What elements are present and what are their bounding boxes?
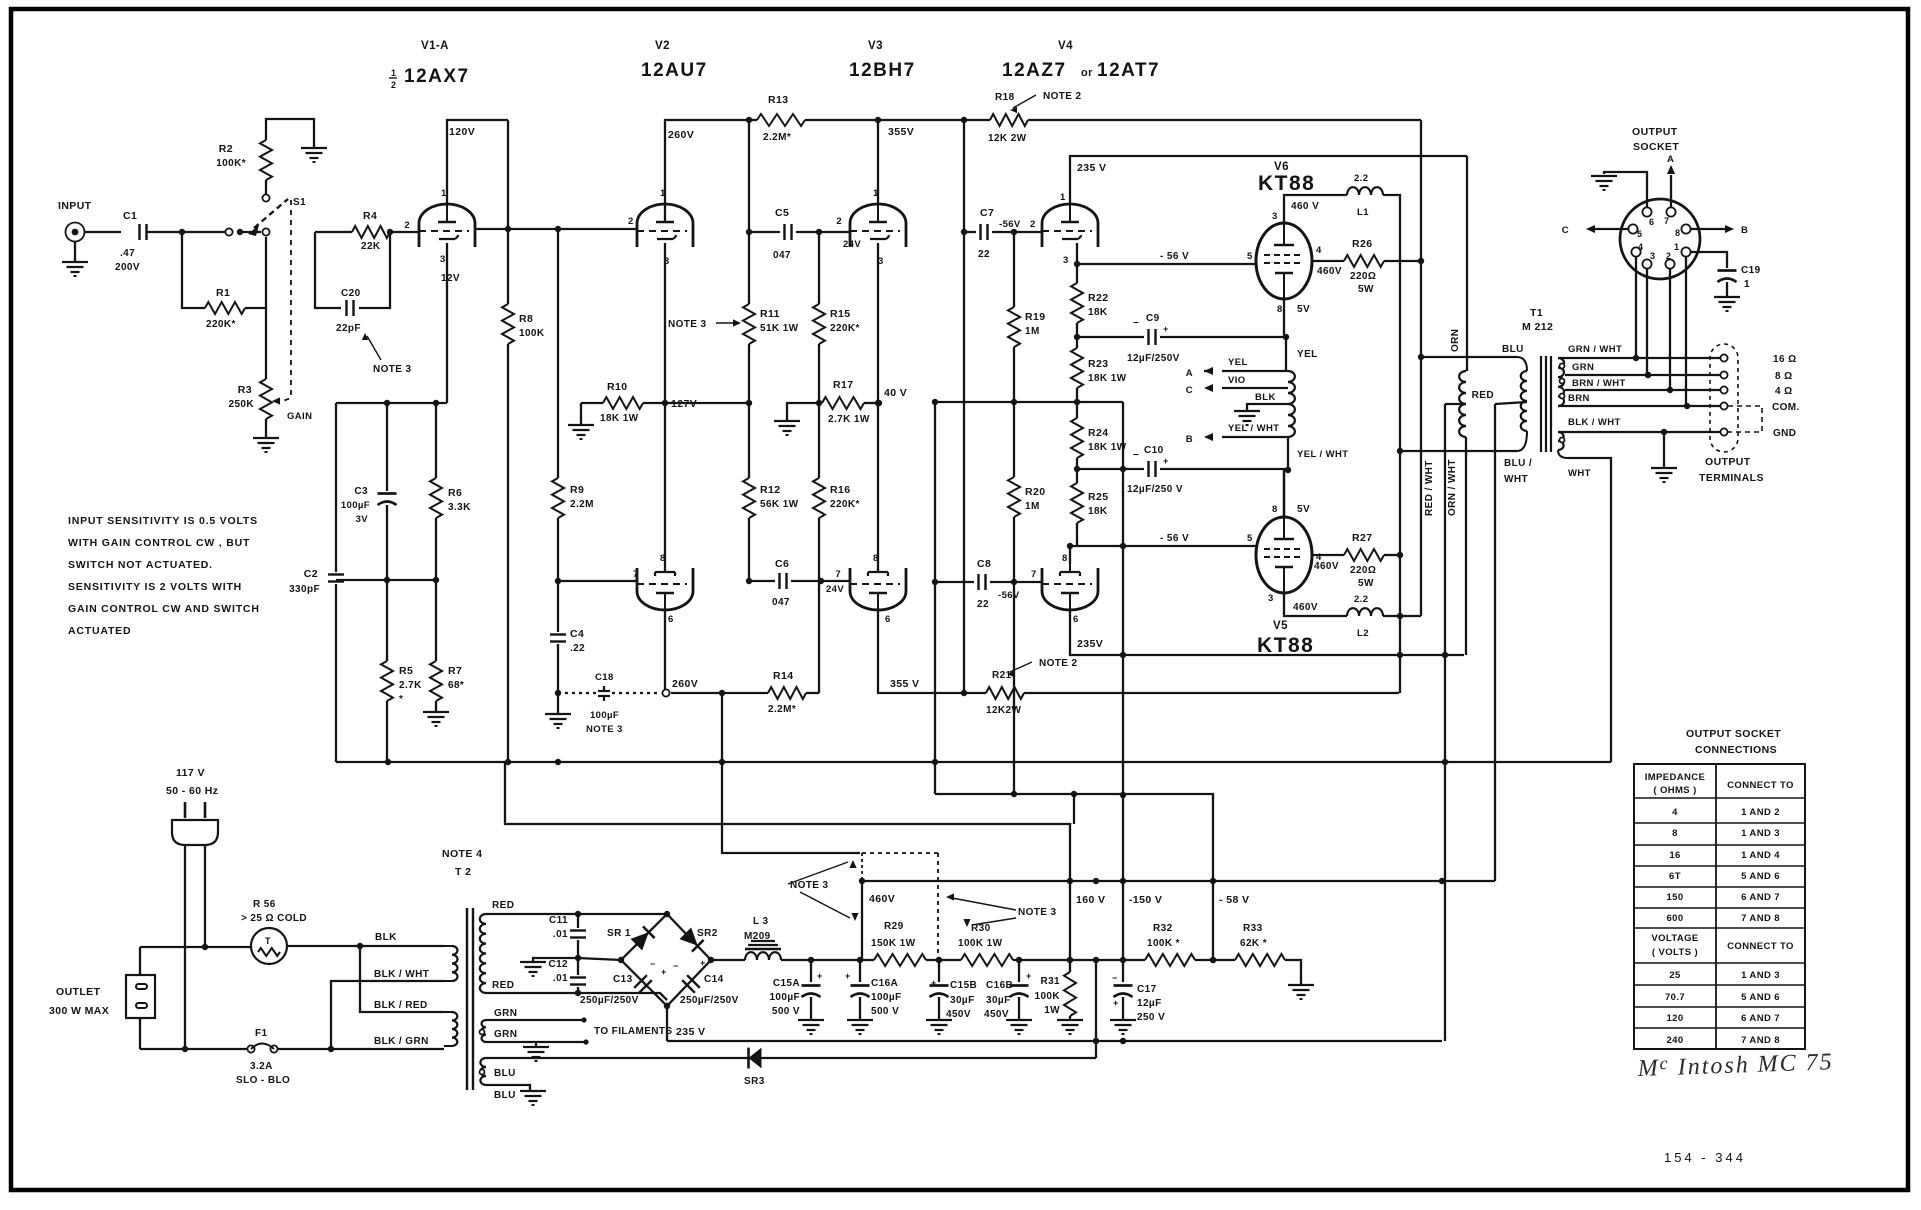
svg-text:V4: V4 xyxy=(1058,40,1073,52)
svg-text:NOTE 3: NOTE 3 xyxy=(1018,907,1057,918)
note 3 arrows ps xyxy=(788,860,859,921)
svg-text:12µF: 12µF xyxy=(1137,998,1162,1009)
svg-text:12AZ7: 12AZ7 xyxy=(1002,60,1067,81)
svg-text:C17: C17 xyxy=(1137,984,1157,995)
svg-text:KT88: KT88 xyxy=(1257,634,1314,657)
T2 filament GRN xyxy=(480,1008,518,1042)
svg-text:C1: C1 xyxy=(123,210,137,222)
diode SR3 xyxy=(744,1048,765,1087)
svg-text:R18: R18 xyxy=(995,92,1015,103)
svg-text:8: 8 xyxy=(1277,304,1283,315)
svg-text:SENSITIVITY IS 2 VOLTS WITH: SENSITIVITY IS 2 VOLTS WITH xyxy=(68,581,242,593)
wire bridge left to C12 xyxy=(578,958,621,960)
wire V3 pin6 to 355V xyxy=(878,608,986,696)
tube V3 lower internals xyxy=(850,564,900,608)
socket pin 7 xyxy=(1664,207,1676,226)
svg-text:68*: 68* xyxy=(448,680,464,691)
svg-text:R23: R23 xyxy=(1088,358,1108,370)
svg-text:> 25 Ω COLD: > 25 Ω COLD xyxy=(241,913,307,924)
svg-text:- 56 V: - 56 V xyxy=(1160,251,1189,262)
svg-text:TERMINALS: TERMINALS xyxy=(1699,472,1764,484)
wire 460V line xyxy=(859,878,895,960)
wire mains top xyxy=(140,946,251,948)
svg-text:R21: R21 xyxy=(992,670,1012,681)
socket pin 3 xyxy=(1642,251,1655,269)
svg-text:1M: 1M xyxy=(1025,501,1040,512)
svg-text:M209: M209 xyxy=(744,931,771,942)
socket pin 1 xyxy=(1674,242,1691,257)
svg-text:BLK: BLK xyxy=(375,932,397,943)
label INPUT xyxy=(58,200,92,212)
svg-text:OUTLET: OUTLET xyxy=(56,986,101,998)
svg-text:1W: 1W xyxy=(1044,1005,1060,1016)
svg-text:4 Ω: 4 Ω xyxy=(1775,386,1793,397)
wire R13 to V3 plate line xyxy=(805,117,990,123)
tube V3 upper envelope xyxy=(850,204,906,247)
svg-text:220Ω: 220Ω xyxy=(1350,271,1376,282)
svg-text:A: A xyxy=(1667,154,1674,165)
svg-text:25: 25 xyxy=(1669,970,1681,981)
socket pin 8 xyxy=(1675,224,1691,238)
wire R20 line to bias xyxy=(1011,582,1017,797)
svg-text:VIO: VIO xyxy=(1228,375,1246,386)
svg-text:L1: L1 xyxy=(1357,207,1369,218)
resistor R23 xyxy=(1071,337,1127,402)
pin labels V2 lower xyxy=(633,553,674,625)
svg-text:12BH7: 12BH7 xyxy=(849,60,916,81)
svg-text:( VOLTS ): ( VOLTS ) xyxy=(1652,947,1698,958)
AC plug xyxy=(172,820,218,845)
svg-text:R32: R32 xyxy=(1153,923,1173,934)
svg-text:BLK / RED: BLK / RED xyxy=(374,1000,428,1011)
svg-text:R6: R6 xyxy=(448,487,462,499)
resistor R27 xyxy=(1344,532,1384,589)
svg-text:2: 2 xyxy=(391,80,396,90)
resistor R24 xyxy=(1071,402,1127,472)
svg-text:460 V: 460 V xyxy=(1291,201,1319,212)
wire V4 plate to 235V xyxy=(1070,156,1467,204)
socket pin 2 xyxy=(1665,251,1674,269)
svg-text:R9: R9 xyxy=(570,484,584,496)
svg-text:50 - 60 Hz: 50 - 60 Hz xyxy=(166,785,218,797)
table impedance rows xyxy=(1666,807,1780,924)
resistor R1 xyxy=(182,232,266,330)
svg-text:460V: 460V xyxy=(1293,602,1318,613)
wire bus y881 xyxy=(862,878,1495,884)
wire 127V to R12 line xyxy=(665,402,749,404)
svg-text:450V: 450V xyxy=(984,1009,1009,1020)
dashed note3 box xyxy=(722,762,942,963)
pin 3 V1 xyxy=(440,254,460,284)
svg-text:+: + xyxy=(1113,998,1119,1008)
plug prongs xyxy=(185,802,205,818)
svg-text:2.7K 1W: 2.7K 1W xyxy=(828,414,870,425)
label 154-344 xyxy=(1664,1150,1746,1165)
svg-text:220Ω: 220Ω xyxy=(1350,565,1376,576)
svg-text:5: 5 xyxy=(1247,533,1253,544)
resistor R21 xyxy=(986,670,1399,716)
svg-text:−: − xyxy=(673,961,679,971)
capacitor C8 xyxy=(935,558,1041,610)
svg-text:V3: V3 xyxy=(868,40,883,52)
svg-text:100K*: 100K* xyxy=(216,158,246,169)
T1 lower secondary xyxy=(1558,432,1565,450)
svg-text:- 56 V: - 56 V xyxy=(1160,533,1189,544)
svg-text:V5: V5 xyxy=(1273,620,1288,632)
svg-text:6: 6 xyxy=(1073,614,1079,625)
svg-text:2.2M*: 2.2M* xyxy=(763,132,791,143)
tube V2 lower internals xyxy=(637,564,687,608)
label V3 xyxy=(849,40,916,81)
svg-text:250K: 250K xyxy=(228,399,254,410)
svg-text:7 AND 8: 7 AND 8 xyxy=(1741,913,1780,924)
svg-text:500 V: 500 V xyxy=(772,1006,800,1017)
wire x1400 node xyxy=(1397,448,1403,693)
svg-text:5W: 5W xyxy=(1358,284,1374,295)
svg-text:*: * xyxy=(399,694,403,705)
tap C VIO xyxy=(1186,375,1288,396)
svg-text:NOTE 3: NOTE 3 xyxy=(373,364,412,375)
wire pin3 to 8ohm xyxy=(1645,268,1651,378)
svg-text:WHT: WHT xyxy=(1504,474,1528,485)
wire V5 cathode top xyxy=(1284,467,1291,517)
wire R14 to R16 bottom xyxy=(818,518,820,693)
pin 1 V1 xyxy=(441,188,447,199)
svg-text:R22: R22 xyxy=(1088,292,1108,304)
tap B YEL/WHT xyxy=(1186,423,1288,445)
wire WHT lead xyxy=(1558,450,1611,762)
svg-text:117 V: 117 V xyxy=(176,767,205,779)
svg-text:YEL: YEL xyxy=(1228,357,1248,368)
svg-text:500 V: 500 V xyxy=(871,1006,899,1017)
capacitor C4 xyxy=(550,628,585,693)
svg-text:ORN: ORN xyxy=(1450,329,1461,352)
svg-text:5V: 5V xyxy=(1297,504,1310,515)
svg-text:220K*: 220K* xyxy=(830,323,860,334)
capacitor C12 xyxy=(548,955,586,993)
svg-text:3.2A: 3.2A xyxy=(250,1061,273,1072)
svg-text:R33: R33 xyxy=(1243,923,1263,934)
resistor R5 xyxy=(381,580,422,762)
terminal 4 xyxy=(1720,386,1792,397)
svg-text:VOLTAGE: VOLTAGE xyxy=(1651,933,1698,944)
svg-text:160 V: 160 V xyxy=(1076,894,1105,906)
wire bus y1041 xyxy=(667,1038,1442,1044)
resistor R22 xyxy=(1071,264,1108,337)
capacitor C1 xyxy=(115,210,147,273)
svg-text:CONNECT TO: CONNECT TO xyxy=(1727,780,1794,791)
tube V1 internals xyxy=(419,204,469,239)
svg-text:.22: .22 xyxy=(570,643,585,654)
svg-text:GND: GND xyxy=(1773,428,1796,439)
choke L2 xyxy=(1347,594,1383,639)
svg-text:or: or xyxy=(1081,67,1093,79)
T1 secondary winding xyxy=(1558,358,1565,406)
svg-text:B: B xyxy=(1186,434,1193,445)
svg-text:SR3: SR3 xyxy=(744,1076,765,1087)
svg-text:BLK / WHT: BLK / WHT xyxy=(1568,417,1621,428)
resistor R19 xyxy=(1008,232,1045,347)
wire V6 cathode xyxy=(1283,299,1289,340)
svg-text:ACTUATED: ACTUATED xyxy=(68,625,131,637)
svg-text:18K: 18K xyxy=(1088,506,1108,517)
svg-text:R3: R3 xyxy=(238,384,252,396)
svg-text:240: 240 xyxy=(1666,1035,1683,1046)
ground output common xyxy=(1651,432,1677,482)
feedback winding xyxy=(1288,371,1295,437)
svg-text:120V: 120V xyxy=(449,126,475,138)
wire cathode bus y403 xyxy=(336,400,447,406)
svg-text:600: 600 xyxy=(1666,913,1683,924)
filament wires xyxy=(486,1017,673,1044)
svg-text:R7: R7 xyxy=(448,665,462,677)
svg-text:−: − xyxy=(1112,973,1118,983)
table OUTPUT SOCKET CONNECTIONS grid xyxy=(1634,764,1805,1049)
svg-text:1 AND 2: 1 AND 2 xyxy=(1741,807,1780,818)
wire F1 to BLK/GRN xyxy=(331,1048,444,1050)
T2 primary lower xyxy=(444,1012,457,1046)
svg-text:ORN / WHT: ORN / WHT xyxy=(1447,459,1458,516)
svg-text:2: 2 xyxy=(1666,251,1671,261)
svg-text:- 58 V: - 58 V xyxy=(1219,894,1249,906)
svg-text:GAIN CONTROL CW AND SWITCH: GAIN CONTROL CW AND SWITCH xyxy=(68,603,260,615)
wire V1-V2 coupling x558 xyxy=(557,229,559,478)
svg-text:4: 4 xyxy=(1638,242,1643,252)
resistor R18 xyxy=(988,92,1028,144)
svg-text:100K: 100K xyxy=(1034,991,1060,1002)
outlet box xyxy=(126,975,155,1018)
note 3 R11 xyxy=(668,319,741,330)
wire bridge right to L3 xyxy=(711,959,745,961)
svg-text:7: 7 xyxy=(1664,216,1669,226)
resistor R29 xyxy=(871,921,926,966)
svg-text:22K: 22K xyxy=(361,241,381,252)
svg-text:-150 V: -150 V xyxy=(1129,894,1162,906)
tap BRN com xyxy=(1558,393,1721,409)
socket pin 4 xyxy=(1631,242,1643,257)
svg-text:3: 3 xyxy=(1650,251,1655,261)
svg-text:40 V: 40 V xyxy=(884,387,907,399)
svg-text:18K 1W: 18K 1W xyxy=(1088,373,1127,384)
svg-text:GRN: GRN xyxy=(494,1008,517,1019)
svg-text:R26: R26 xyxy=(1352,238,1372,250)
wire V2 plate to 260V xyxy=(665,117,752,221)
wire pin1 to com xyxy=(1685,256,1687,406)
svg-text:R14: R14 xyxy=(773,670,793,682)
wire C5 line xyxy=(749,231,780,233)
svg-text:C20: C20 xyxy=(341,288,361,299)
tube V6 KT88 xyxy=(1256,223,1312,299)
T2 core xyxy=(467,908,473,1090)
wire bus y694 xyxy=(878,692,880,694)
svg-text:2.2: 2.2 xyxy=(1354,173,1368,184)
svg-text:C19: C19 xyxy=(1741,265,1761,276)
svg-text:250 V: 250 V xyxy=(1137,1012,1165,1023)
pot R3 GAIN xyxy=(228,308,312,422)
pin labels V5 xyxy=(1268,504,1322,604)
capacitor C7 xyxy=(964,207,1041,260)
svg-text:NOTE 4: NOTE 4 xyxy=(442,848,482,860)
svg-text:RED / WHT: RED / WHT xyxy=(1424,460,1435,516)
svg-text:INPUT SENSITIVITY IS 0.5 VO: INPUT SENSITIVITY IS 0.5 VOLTS xyxy=(68,515,258,527)
svg-text:300 W MAX: 300 W MAX xyxy=(49,1005,109,1017)
resistor R4 xyxy=(341,210,390,252)
capacitor C15B xyxy=(926,960,952,1034)
svg-text:C16A: C16A xyxy=(871,978,898,989)
svg-text:NOTE 3: NOTE 3 xyxy=(668,319,707,330)
svg-text:KT88: KT88 xyxy=(1258,172,1315,195)
svg-text:R2: R2 xyxy=(219,143,233,155)
resistor R13 xyxy=(757,94,805,143)
svg-text:150K 1W: 150K 1W xyxy=(871,938,916,949)
wire V2 pin6 to 260V node xyxy=(662,608,698,697)
svg-text:INPUT: INPUT xyxy=(58,200,92,212)
thermistor R56 xyxy=(241,899,307,964)
svg-text:C7: C7 xyxy=(980,207,994,219)
svg-text:R15: R15 xyxy=(830,308,850,320)
plug wires xyxy=(182,845,208,1052)
tap BLK/WHT gnd xyxy=(1558,417,1721,435)
svg-text:2: 2 xyxy=(628,216,634,227)
diode SR2 xyxy=(679,927,717,951)
wire V1 plate to 120V xyxy=(447,120,508,204)
wire pin4 to 16ohm xyxy=(1635,256,1637,358)
pin labels V3 lower xyxy=(873,553,891,625)
svg-text:-56V: -56V xyxy=(999,219,1021,230)
tap A YEL xyxy=(1186,357,1288,379)
svg-text:−: − xyxy=(1133,450,1139,461)
ground C4 line xyxy=(545,690,571,728)
svg-text:16 Ω: 16 Ω xyxy=(1773,354,1797,365)
T1 primary right winding xyxy=(1521,371,1527,431)
svg-text:7: 7 xyxy=(1031,569,1037,580)
wire y824 riser xyxy=(1070,794,1074,824)
wire RED/WHT drop xyxy=(1424,404,1495,881)
svg-text:22: 22 xyxy=(977,599,989,610)
svg-text:100µF: 100µF xyxy=(769,992,800,1003)
svg-text:150: 150 xyxy=(1666,892,1683,903)
svg-text:450V: 450V xyxy=(946,1009,971,1020)
wire HV top to bridge xyxy=(486,911,667,917)
svg-text:R12: R12 xyxy=(760,484,780,496)
svg-text:1: 1 xyxy=(1674,242,1679,252)
svg-text:C2: C2 xyxy=(304,568,318,580)
svg-text:260V: 260V xyxy=(668,129,694,141)
label -56V lower xyxy=(0,0,1,1)
svg-text:24V: 24V xyxy=(826,584,844,595)
note 2 R18 xyxy=(1010,91,1082,113)
svg-text:C18: C18 xyxy=(595,672,614,683)
ground input jack xyxy=(62,241,88,276)
svg-text:R31: R31 xyxy=(1040,976,1060,987)
svg-text:NOTE 2: NOTE 2 xyxy=(1043,91,1082,102)
svg-text:8: 8 xyxy=(660,553,666,564)
svg-text:8: 8 xyxy=(1675,228,1680,238)
label L3 M209 xyxy=(744,916,771,942)
svg-text:YEL: YEL xyxy=(1297,349,1318,360)
wire V6 plate to L1 xyxy=(1284,195,1347,223)
svg-text:SOCKET: SOCKET xyxy=(1633,141,1679,153)
wire L2 to x1421 xyxy=(1383,613,1421,619)
svg-text:7: 7 xyxy=(633,569,639,580)
wire x749 junction down xyxy=(746,120,752,235)
wire C9 node to coil xyxy=(1286,337,1318,371)
svg-text:12V: 12V xyxy=(441,273,460,284)
svg-text:3.3K: 3.3K xyxy=(448,502,471,513)
svg-text:R8: R8 xyxy=(519,313,533,325)
svg-text:62K *: 62K * xyxy=(1240,938,1267,949)
tap BLK gnd xyxy=(1234,392,1288,425)
capacitor C17 xyxy=(1110,960,1165,1034)
svg-text:R17: R17 xyxy=(833,379,853,391)
svg-text:235 V: 235 V xyxy=(676,1026,705,1038)
wire V5 plate to L2 xyxy=(1284,593,1347,616)
pin labels V3 upper xyxy=(873,188,884,267)
label BLK/GRN xyxy=(374,1036,429,1047)
svg-text:1 AND 3: 1 AND 3 xyxy=(1741,970,1780,981)
svg-text:100µF: 100µF xyxy=(341,500,370,511)
svg-text:C8: C8 xyxy=(977,558,991,570)
tap RED T1 xyxy=(1472,390,1527,404)
pin labels V4 lower xyxy=(1031,553,1079,625)
label NOTE4 T2 xyxy=(442,848,482,878)
svg-text:3: 3 xyxy=(440,254,446,265)
T1 primary left winding xyxy=(1459,371,1466,437)
table title xyxy=(1686,728,1781,756)
table header impedance xyxy=(1645,772,1794,796)
wire BLK/RED tap xyxy=(360,946,444,1012)
resistor R8 xyxy=(502,120,545,762)
svg-text:355V: 355V xyxy=(888,126,914,138)
svg-text:R5: R5 xyxy=(399,665,413,677)
svg-text:5W: 5W xyxy=(1358,578,1374,589)
note 3 arrows right xyxy=(946,893,1057,927)
wire y580 C2-R5-R7 xyxy=(336,577,439,583)
svg-text:4: 4 xyxy=(1672,807,1678,818)
svg-text:+: + xyxy=(1163,456,1169,466)
svg-text:CONNECTIONS: CONNECTIONS xyxy=(1695,744,1777,756)
choke L1 xyxy=(1347,173,1383,218)
wire x964 355V line xyxy=(961,120,967,693)
output socket circle xyxy=(1620,199,1700,279)
wire main rail xyxy=(781,957,1235,963)
bridge diamond xyxy=(618,911,714,1009)
svg-text:R25: R25 xyxy=(1088,491,1108,503)
svg-text:L2: L2 xyxy=(1357,628,1369,639)
wire V1 cathode xyxy=(446,243,448,403)
wire V2 cathode x660 xyxy=(662,243,668,571)
svg-text:R4: R4 xyxy=(363,210,377,222)
svg-text:NOTE 3: NOTE 3 xyxy=(586,724,623,735)
svg-text:R27: R27 xyxy=(1352,532,1372,544)
wire bridge bottom 235V xyxy=(667,1006,705,1041)
resistor R30 xyxy=(958,923,1013,966)
svg-text:B: B xyxy=(1741,225,1748,236)
tap BRN/WHT 4ohm xyxy=(1565,378,1721,393)
resistor R6 xyxy=(430,403,471,580)
svg-text:355 V: 355 V xyxy=(890,678,919,690)
svg-text:R 56: R 56 xyxy=(253,899,276,910)
label V6 KT88 xyxy=(1258,161,1315,195)
capacitor C3 xyxy=(341,403,397,580)
svg-text:12AT7: 12AT7 xyxy=(1097,60,1160,81)
svg-text:200V: 200V xyxy=(115,262,140,273)
label V5 KT88 xyxy=(1257,620,1314,657)
tube V3 upper internals xyxy=(850,204,900,239)
capacitor C20 xyxy=(315,232,390,334)
wire pin2 to 4ohm xyxy=(1669,268,1671,390)
svg-text:R16: R16 xyxy=(830,484,850,496)
